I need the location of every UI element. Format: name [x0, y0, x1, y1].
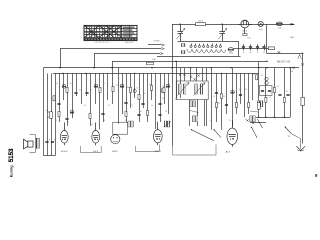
capacitor C24	[158, 115, 161, 116]
tube V2 EF9	[92, 123, 100, 146]
capacitor C28	[215, 93, 218, 94]
svg-text:50: 50	[137, 88, 139, 90]
svg-text:0,2: 0,2	[218, 103, 220, 105]
capacitor C33	[278, 94, 281, 96]
oscillator padder oval	[161, 88, 164, 93]
resistor R13	[125, 112, 127, 117]
switch lever S2d	[258, 119, 263, 128]
switch contact S2e	[246, 119, 248, 121]
svg-text:AL 4: AL 4	[226, 151, 231, 154]
wire terminal ground	[94, 53, 163, 55]
tube V3 EM4 magic eye	[111, 135, 120, 144]
svg-text:50: 50	[165, 111, 167, 113]
wire AVC line	[60, 49, 62, 68]
loudspeaker frame	[30, 135, 36, 153]
trimmer C17	[70, 110, 74, 114]
svg-text:0,1: 0,1	[90, 90, 92, 92]
svg-text:0,5: 0,5	[55, 120, 57, 122]
svg-text:50: 50	[151, 105, 153, 107]
svg-text:5k: 5k	[79, 90, 81, 92]
svg-text:0,1: 0,1	[245, 119, 247, 121]
wire coil box bottom	[157, 56, 241, 58]
svg-text:0,1: 0,1	[84, 105, 86, 107]
svg-text:0,5: 0,5	[245, 89, 247, 91]
loudspeaker LS1 cone	[24, 139, 28, 149]
resistor R17	[247, 103, 249, 108]
svg-text:EM 4: EM 4	[112, 151, 118, 153]
variable capacitor C1	[176, 24, 185, 41]
svg-text:ECH 4: ECH 4	[61, 151, 68, 153]
box output coupling	[260, 86, 273, 96]
svg-text:10011: 10011	[198, 21, 203, 23]
switch lever mains S3	[285, 126, 292, 133]
antenna coil winding	[187, 50, 226, 53]
switch lever S2b	[213, 129, 221, 137]
electrolytic C41	[51, 138, 56, 142]
svg-text:F 80μ: F 80μ	[229, 53, 233, 55]
IF coil pair L4b	[164, 121, 169, 127]
svg-text:50: 50	[229, 120, 231, 122]
capacitor C31	[261, 90, 264, 92]
trimmer C5	[62, 84, 66, 88]
wire terminal MW	[60, 48, 164, 50]
resistor R30 on top rail	[196, 21, 206, 26]
junctions output rail	[258, 117, 285, 118]
IF coil pair L8	[258, 101, 263, 107]
wire output rail	[256, 117, 290, 119]
arrow L4b	[164, 121, 172, 127]
wires above T1	[185, 68, 207, 81]
svg-text:Skala 5153: Skala 5153	[125, 42, 134, 44]
resistor R23	[283, 97, 285, 102]
svg-text:0,1: 0,1	[277, 86, 279, 88]
output transformer T2	[36, 138, 39, 148]
IF transformer T1	[176, 81, 208, 100]
wire coil box right	[238, 41, 240, 56]
svg-text:0,1: 0,1	[261, 75, 263, 77]
capacitor C12 electrolytic	[133, 88, 136, 93]
svg-text:5k: 5k	[243, 52, 245, 54]
capacitor C19	[137, 115, 140, 116]
arrow mains plug tail	[298, 150, 304, 151]
trimmer C27	[231, 90, 235, 94]
arrow L5-L6	[190, 111, 199, 113]
magic eye box	[113, 122, 128, 134]
svg-text:0,1: 0,1	[116, 85, 118, 87]
capacitor C14	[158, 104, 161, 105]
bus chassis	[53, 73, 259, 75]
wire screen line	[94, 54, 96, 68]
capacitor C13	[141, 104, 144, 105]
resistor R32 right column	[301, 97, 304, 105]
wire to mains arrow	[292, 134, 301, 149]
resistor R40	[46, 110, 53, 118]
wires below T1	[190, 100, 207, 127]
svg-text:50: 50	[103, 83, 105, 85]
variable capacitor C2	[218, 24, 227, 41]
resistor R24	[257, 103, 260, 109]
svg-text:skala: skala	[259, 29, 263, 31]
wire HT distribution	[112, 61, 267, 63]
wire oscillator drop	[172, 24, 174, 146]
arrow through T1a	[178, 83, 190, 96]
wire anode line drop	[112, 61, 114, 68]
svg-text:Eumig: Eumig	[8, 165, 13, 178]
coil L2 core	[181, 51, 185, 54]
resistor R9	[150, 86, 152, 91]
resistor R11	[58, 112, 60, 117]
svg-text:1M: 1M	[249, 52, 252, 54]
capacitor C26	[239, 95, 242, 96]
svg-text:+: +	[54, 138, 56, 141]
resistor R31 mains	[267, 47, 275, 50]
trimmer C8	[94, 84, 98, 88]
capacitor C25	[225, 105, 228, 106]
tube V1 ECH4	[60, 123, 68, 146]
svg-text:LW MW: LW MW	[154, 41, 160, 43]
wire right column	[302, 54, 304, 144]
svg-text:50: 50	[223, 96, 225, 98]
svg-text:0,3: 0,3	[149, 84, 151, 86]
resistor R8 horizontal	[147, 62, 154, 65]
resistor R16	[235, 103, 237, 108]
svg-text:EBF 2: EBF 2	[155, 151, 162, 153]
wire mains drop	[266, 24, 268, 53]
svg-text:50: 50	[108, 105, 110, 107]
IF coil pair L5	[190, 101, 195, 107]
svg-text:5k: 5k	[269, 97, 271, 99]
arrow through T1b	[194, 83, 206, 96]
svg-text:50: 50	[286, 91, 288, 93]
component value labels	[55, 74, 288, 126]
svg-text:50: 50	[162, 86, 164, 88]
svg-text:4: 4	[235, 103, 236, 105]
resistor R2	[53, 96, 55, 101]
svg-text:0,1: 0,1	[213, 96, 215, 98]
IF coil pair L7	[250, 116, 255, 122]
loudspeaker magnet	[28, 141, 33, 147]
junctions on HT bus	[59, 67, 290, 68]
tube V4 EBF2	[153, 122, 162, 145]
junction mains	[302, 53, 303, 54]
trimmer C15	[166, 84, 170, 88]
wire speaker ground rail	[44, 155, 56, 157]
arrow L7-L8	[250, 111, 258, 112]
svg-text:2x50: 2x50	[247, 37, 251, 39]
wire heater loop U2	[135, 145, 159, 152]
svg-text:0,1: 0,1	[263, 52, 265, 54]
svg-text:5153: 5153	[8, 148, 15, 162]
capacitor C34	[286, 94, 289, 96]
svg-text:45v: 45v	[290, 71, 293, 73]
resistor R7	[138, 95, 140, 100]
junction top rail B	[222, 24, 223, 25]
svg-text:0,2A: 0,2A	[278, 26, 282, 29]
svg-text:0,1: 0,1	[140, 111, 142, 113]
resistor R4	[47, 112, 49, 117]
switch contacts S1	[179, 74, 200, 81]
svg-text:50: 50	[67, 122, 69, 124]
svg-text:1k: 1k	[46, 110, 48, 112]
wire mains horizontal	[267, 53, 303, 55]
wire heater loop U1	[81, 146, 102, 153]
svg-text:9 8 7 6 5 4 3 2 1 0 - - -: 9 8 7 6 5 4 3 2 1 0 - - -	[95, 42, 112, 44]
wire top HT rail	[172, 24, 294, 26]
svg-text:1M: 1M	[239, 89, 242, 91]
capacitor C16	[65, 119, 68, 120]
tick right column	[301, 63, 304, 65]
capacitor C9	[57, 104, 60, 105]
junction HT distribution	[266, 61, 267, 62]
resistor R12	[89, 114, 91, 119]
capacitor C18	[101, 114, 104, 115]
switch lever S2c	[251, 127, 257, 138]
svg-text:0,1: 0,1	[56, 83, 58, 85]
dial-cord table	[84, 25, 137, 40]
svg-text:0,1: 0,1	[144, 93, 146, 95]
resistor R18	[220, 94, 222, 99]
switch lever S2a	[191, 129, 214, 141]
resistor R21	[265, 97, 267, 102]
electrolytic C30	[265, 77, 268, 84]
svg-text:«4Ω: «4Ω	[290, 37, 294, 39]
dial lamp LP1	[258, 21, 263, 26]
wire aux rail	[250, 122, 266, 124]
svg-text:50: 50	[125, 120, 127, 122]
oscillator coil turns L3	[190, 44, 222, 48]
capacitor group C20-C23	[241, 44, 268, 53]
svg-text:+: +	[49, 138, 51, 141]
resistor R6	[129, 87, 131, 92]
wire trimmer out	[234, 48, 241, 50]
switch contact S2f	[252, 122, 254, 124]
svg-text:50: 50	[257, 52, 259, 54]
svg-text:0,1: 0,1	[131, 105, 133, 107]
IF coil pair L6	[193, 116, 198, 122]
svg-text:0,1: 0,1	[162, 98, 164, 100]
trimmer oval	[228, 48, 234, 51]
switch contact mains	[277, 51, 280, 53]
resistor R5	[112, 87, 114, 92]
electrolytic C40	[45, 138, 50, 142]
capacitor C11	[124, 103, 127, 104]
resistor R10	[163, 88, 165, 93]
svg-text:0,1: 0,1	[91, 124, 93, 126]
table caption row	[95, 42, 134, 44]
capacitor under rectifier	[243, 28, 251, 39]
arrow aerial up	[298, 54, 301, 59]
wire coil box top	[178, 41, 239, 43]
junction top rail A	[180, 24, 181, 25]
rectifier tube V6 EZ4	[239, 20, 252, 28]
arrow mains plug	[296, 146, 305, 150]
fuse F1	[276, 22, 282, 29]
trimmer C10	[120, 84, 124, 88]
svg-text:220: 220	[288, 136, 291, 138]
resistor R20	[256, 75, 258, 80]
capacitor C32	[268, 90, 271, 92]
arrowhead top rail end	[291, 23, 296, 25]
svg-text:9: 9	[315, 173, 318, 178]
IF coil pair L4a	[128, 121, 133, 127]
bus main HT	[44, 67, 300, 69]
svg-text:AM 107 + AZ: AM 107 + AZ	[277, 61, 291, 64]
svg-text:0,1: 0,1	[175, 99, 177, 101]
resistor R1	[66, 87, 68, 92]
vertical signal wires	[44, 61, 291, 156]
svg-text:2M: 2M	[103, 120, 106, 122]
capacitor C6	[74, 93, 77, 94]
wire terminal LW	[148, 44, 165, 46]
svg-text:50: 50	[70, 83, 72, 85]
resistor R22	[273, 88, 275, 93]
resistor R3	[99, 87, 101, 92]
wire heater return	[173, 145, 217, 156]
junctions on chassis bus	[62, 73, 222, 74]
contact X right bus	[292, 67, 295, 69]
svg-text:EZ 4: EZ 4	[243, 30, 248, 32]
svg-text:47k: 47k	[152, 59, 155, 61]
tube V5 AL4	[227, 120, 238, 147]
resistor R14	[146, 111, 148, 116]
svg-text:0,1: 0,1	[210, 120, 212, 122]
capacitor C7	[85, 93, 88, 94]
junction HT distribution B	[175, 61, 176, 62]
resistor R15	[215, 103, 217, 108]
svg-text:50: 50	[253, 74, 255, 76]
coil L1 core	[181, 44, 185, 47]
